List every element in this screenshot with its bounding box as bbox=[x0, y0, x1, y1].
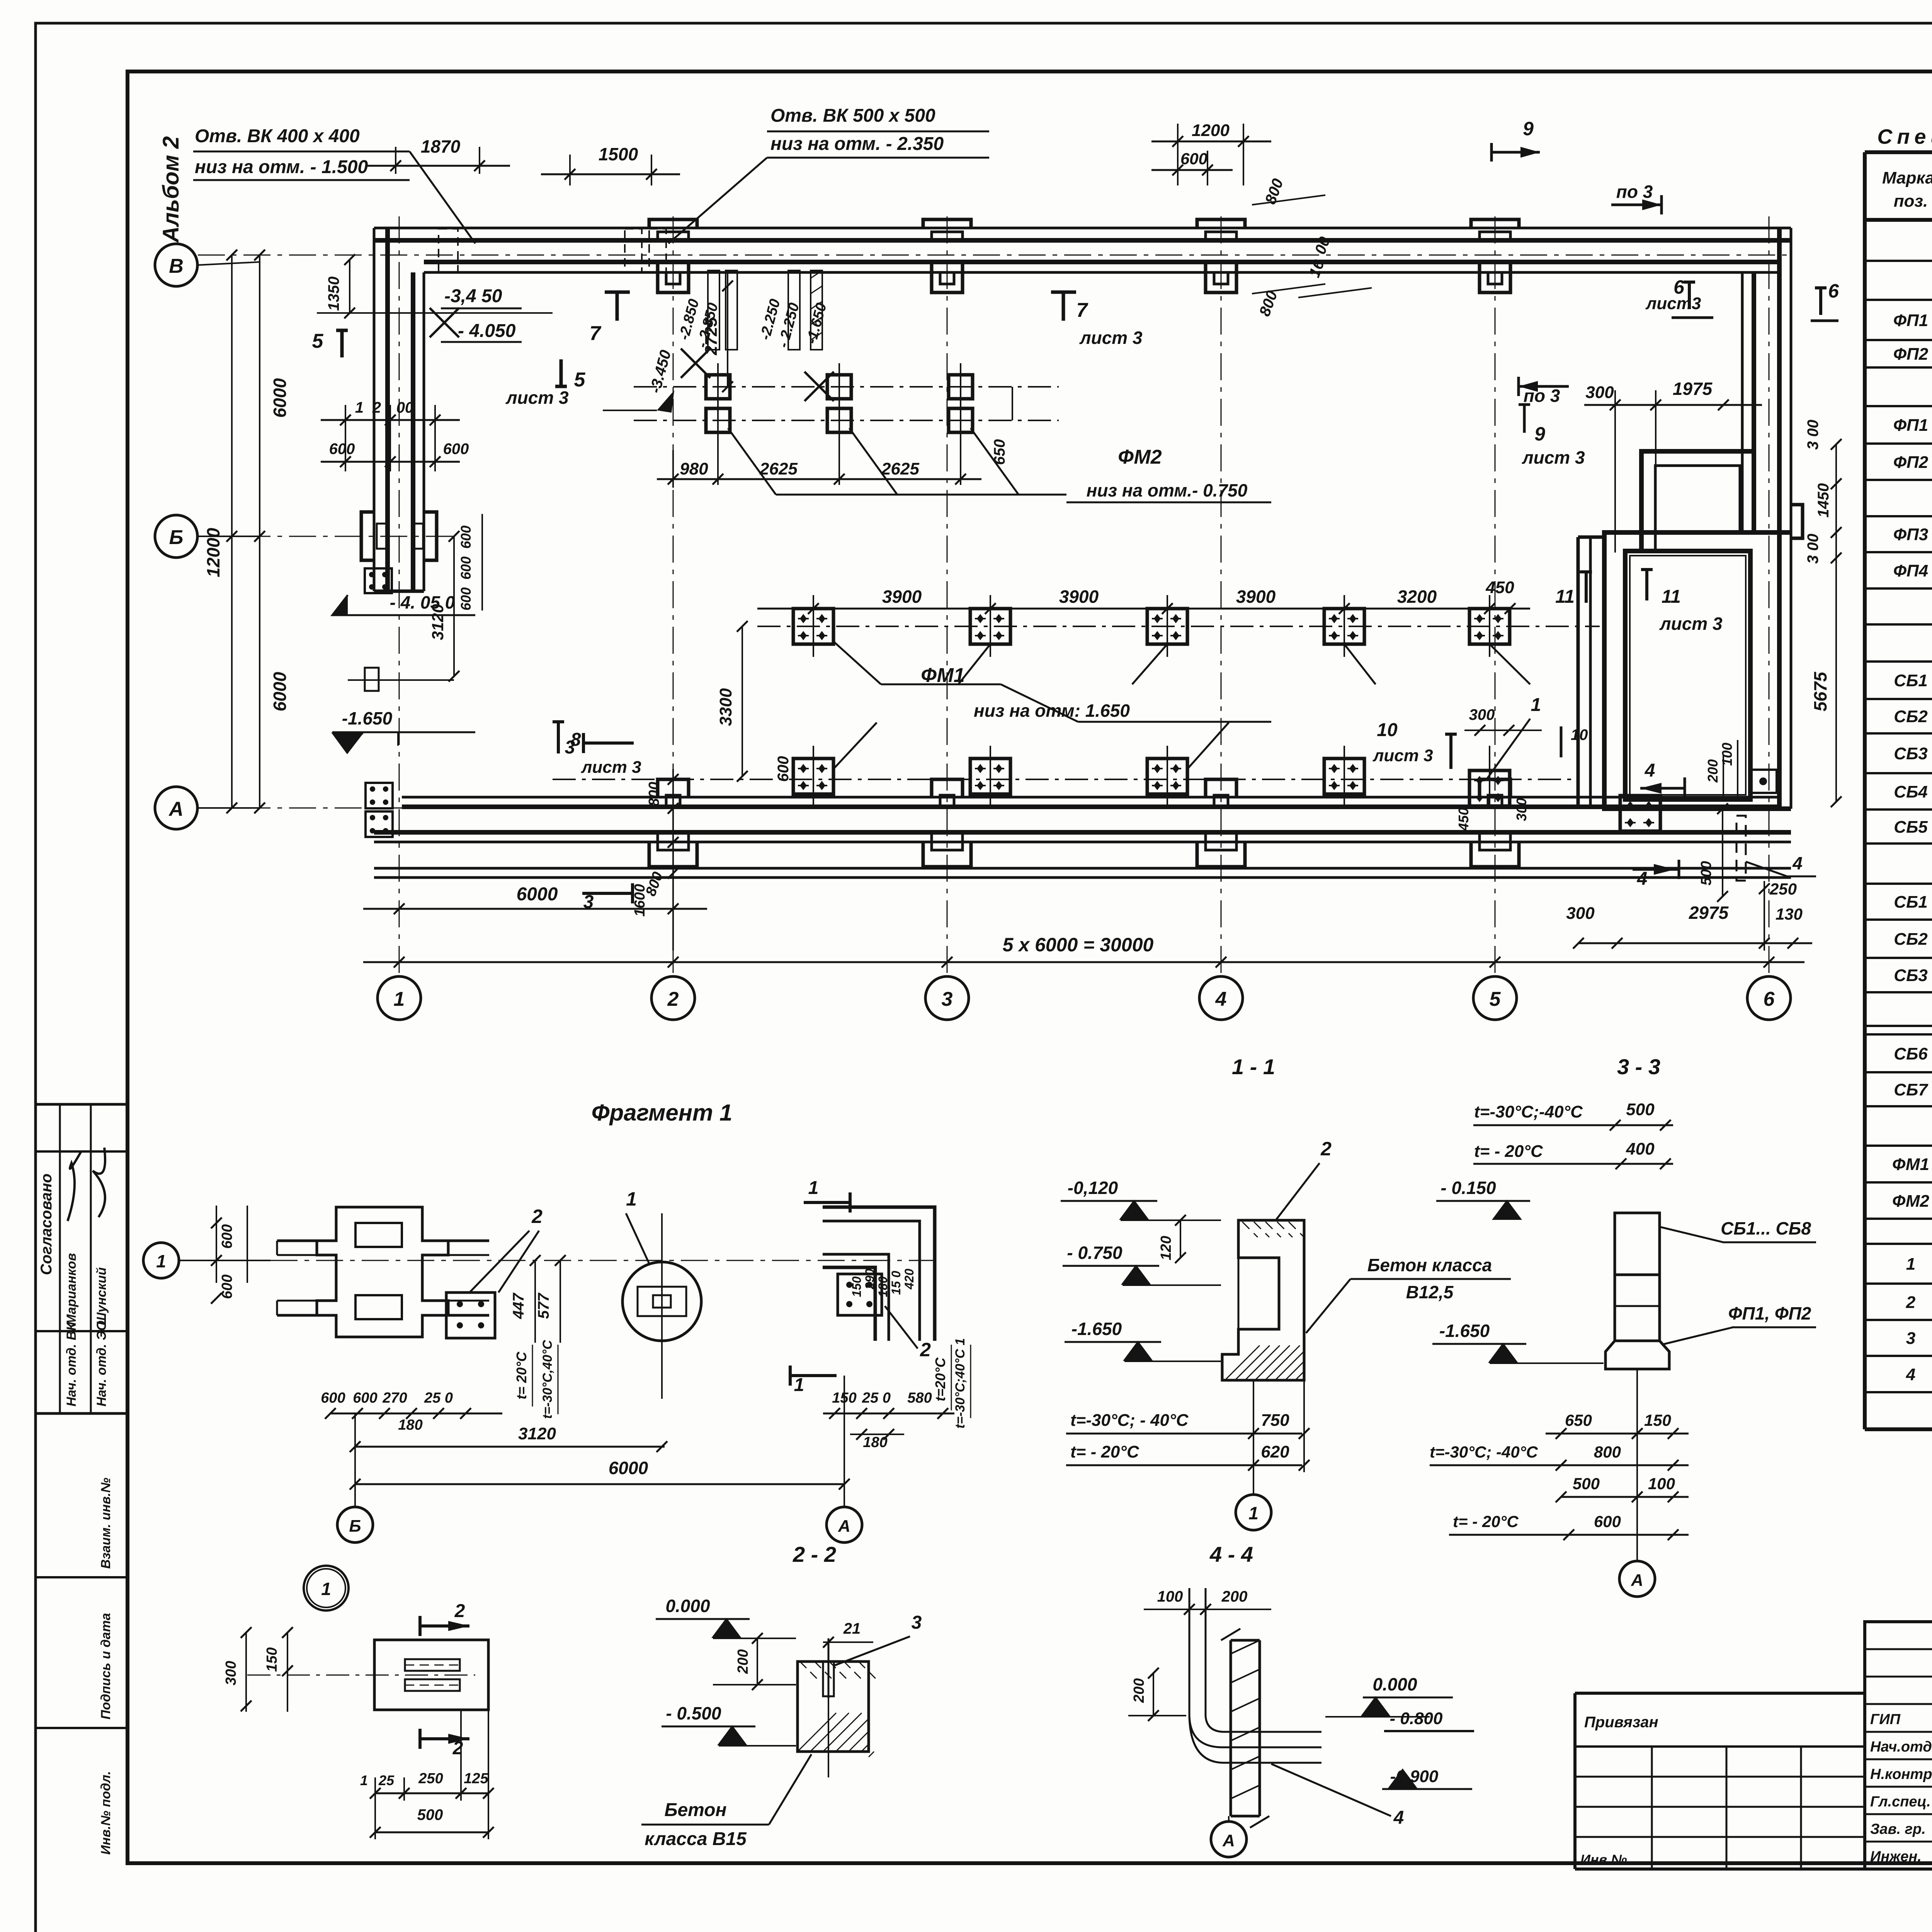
svg-text:ФП2: ФП2 bbox=[1893, 345, 1929, 364]
svg-text:лист 3: лист 3 bbox=[581, 758, 641, 777]
svg-text:2975: 2975 bbox=[1689, 903, 1729, 923]
svg-text:600: 600 bbox=[1594, 1512, 1621, 1531]
svg-text:4: 4 bbox=[1393, 1808, 1404, 1828]
axis row A centerline bbox=[198, 808, 1793, 809]
section mark 8 with list3 bbox=[553, 722, 564, 753]
svg-text:10: 10 bbox=[1377, 720, 1398, 740]
top dim 1870 bbox=[395, 147, 396, 174]
svg-text:3 - 3: 3 - 3 bbox=[1617, 1054, 1660, 1079]
svg-text:лист 3: лист 3 bbox=[1079, 328, 1143, 348]
svg-text:Б: Б bbox=[349, 1517, 361, 1536]
svg-text:1: 1 bbox=[1906, 1255, 1915, 1274]
svg-text:4 - 4: 4 - 4 bbox=[1209, 1542, 1253, 1566]
svg-text:290: 290 bbox=[863, 1269, 877, 1290]
svg-text:t=-30°C;40°C 1: t=-30°C;40°C 1 bbox=[953, 1338, 968, 1429]
left wall at axis 1 bbox=[373, 228, 376, 591]
svg-text:лист 3: лист 3 bbox=[1522, 447, 1585, 468]
svg-text:2: 2 bbox=[1906, 1293, 1916, 1312]
axis row V centerline bbox=[198, 255, 1793, 256]
fragment dims 600 600 left bbox=[216, 1206, 217, 1283]
tank left corridor wall bbox=[1577, 537, 1580, 809]
svg-text:1350: 1350 bbox=[325, 277, 342, 311]
svg-text:9: 9 bbox=[1534, 423, 1545, 445]
mini plan dims 300 150 left bbox=[245, 1633, 247, 1712]
svg-text:2: 2 bbox=[667, 988, 679, 1010]
svg-text:3900: 3900 bbox=[1059, 587, 1099, 607]
svg-text:t= 20°C: t= 20°C bbox=[514, 1351, 529, 1399]
section 1-1 axis circle 1 bbox=[1236, 1495, 1271, 1530]
svg-text:6000: 6000 bbox=[609, 1458, 648, 1478]
svg-text:2625: 2625 bbox=[759, 459, 798, 478]
top wall strip foundation bbox=[374, 227, 1791, 230]
left wall bottom end cap bbox=[374, 590, 424, 593]
svg-text:200: 200 bbox=[1221, 1588, 1248, 1605]
svg-text:1: 1 bbox=[355, 399, 364, 416]
svg-text:8: 8 bbox=[571, 730, 581, 750]
svg-text:лист 3: лист 3 bbox=[505, 388, 569, 408]
svg-text:СБ3: СБ3 bbox=[1894, 966, 1927, 985]
svg-text:- 0.500: - 0.500 bbox=[666, 1703, 721, 1723]
svg-text:3120: 3120 bbox=[518, 1424, 556, 1443]
section 4-4 pipe elbow bbox=[1189, 1716, 1321, 1747]
svg-text:ФП4: ФП4 bbox=[1893, 561, 1928, 580]
svg-text:А: А bbox=[838, 1517, 850, 1536]
svg-text:300: 300 bbox=[1514, 798, 1529, 821]
fragment corner bolt square bbox=[838, 1274, 882, 1315]
svg-text:150: 150 bbox=[850, 1276, 864, 1297]
svg-text:620: 620 bbox=[1261, 1442, 1289, 1461]
svg-text:СБ1: СБ1 bbox=[1894, 671, 1927, 690]
svg-text:Марианков: Марианков bbox=[64, 1253, 79, 1325]
svg-text:Нач. отд. ВК: Нач. отд. ВК bbox=[64, 1322, 79, 1406]
svg-text:t= - 20°C: t= - 20°C bbox=[1474, 1142, 1543, 1161]
svg-text:3900: 3900 bbox=[882, 587, 922, 607]
mini plan rectangle bbox=[374, 1640, 488, 1710]
svg-text:800: 800 bbox=[1594, 1443, 1621, 1461]
svg-text:лист 3: лист 3 bbox=[1372, 746, 1433, 765]
FM2 row centerlines bbox=[634, 386, 1059, 388]
dim 300 1975 above tank bbox=[1614, 390, 1616, 553]
right wall at axis 6 bbox=[1741, 272, 1744, 532]
svg-text:450: 450 bbox=[1456, 808, 1471, 831]
svg-text:2: 2 bbox=[920, 1339, 931, 1361]
svg-text:00: 00 bbox=[396, 399, 414, 416]
svg-text:4: 4 bbox=[1645, 760, 1655, 781]
svg-text:-0,120: -0,120 bbox=[1068, 1178, 1118, 1198]
svg-text:класса В15: класса В15 bbox=[645, 1829, 747, 1849]
left margin stamp table bbox=[36, 1103, 128, 1106]
svg-text:3: 3 bbox=[942, 988, 953, 1010]
svg-text:- 0.150: - 0.150 bbox=[1440, 1178, 1496, 1198]
FM1 leader network bbox=[833, 641, 881, 684]
svg-text:5: 5 bbox=[1490, 988, 1501, 1010]
svg-text:3: 3 bbox=[912, 1612, 922, 1633]
section 1-1 foundation profile hatched bbox=[1222, 1220, 1304, 1380]
section 4-4 pipe vertical bbox=[1189, 1588, 1190, 1716]
svg-text:Н.контр.: Н.контр. bbox=[1870, 1766, 1932, 1782]
svg-text:800: 800 bbox=[646, 782, 662, 806]
svg-text:250: 250 bbox=[1769, 880, 1797, 898]
svg-text:3120: 3120 bbox=[429, 604, 447, 640]
svg-text:600: 600 bbox=[321, 1390, 345, 1406]
svg-text:- 4.050: - 4.050 bbox=[458, 321, 516, 341]
mini plan centerline bbox=[247, 1675, 475, 1676]
svg-text:СБ2: СБ2 bbox=[1894, 930, 1928, 949]
svg-text:4: 4 bbox=[1906, 1365, 1915, 1384]
section 3-3 block column bbox=[1615, 1213, 1660, 1275]
svg-text:3 00: 3 00 bbox=[1804, 420, 1821, 450]
svg-text:3: 3 bbox=[1906, 1329, 1915, 1348]
dim 1350 vertical bbox=[349, 260, 350, 313]
svg-text:Согласовано: Согласовано bbox=[38, 1173, 55, 1275]
svg-text:-1.650: -1.650 bbox=[1439, 1321, 1490, 1341]
FM1 dimension chain 3900x3 3200 450 bbox=[813, 595, 814, 609]
svg-text:200: 200 bbox=[1131, 1678, 1147, 1703]
svg-text:580: 580 bbox=[907, 1390, 932, 1406]
svg-text:ФМ1: ФМ1 bbox=[1892, 1155, 1929, 1174]
dim 3120 vertical bbox=[453, 536, 455, 676]
spec table grid bbox=[1865, 150, 1932, 154]
svg-text:В12,5: В12,5 bbox=[1406, 1282, 1454, 1302]
svg-text:-1.650: -1.650 bbox=[342, 708, 393, 728]
svg-text:11: 11 bbox=[1662, 587, 1681, 607]
svg-text:Бетон класса: Бетон класса bbox=[1367, 1255, 1492, 1275]
fragment corner detail top-right bbox=[823, 1207, 935, 1341]
svg-text:низ на отм: 1.650: низ на отм: 1.650 bbox=[974, 701, 1130, 721]
svg-text:650: 650 bbox=[991, 439, 1008, 465]
svg-text:Инжен.: Инжен. bbox=[1870, 1849, 1922, 1865]
svg-text:250: 250 bbox=[418, 1770, 443, 1787]
section 3-3 flared base bbox=[1605, 1341, 1669, 1369]
left wall B-axis cross pilaster bbox=[361, 512, 374, 560]
svg-text:6: 6 bbox=[1764, 988, 1775, 1010]
svg-text:600: 600 bbox=[458, 556, 474, 580]
top wall pilasters bbox=[649, 219, 697, 228]
axis row circles V B A bbox=[155, 244, 197, 286]
svg-text:t=-30°C; -40°C: t=-30°C; -40°C bbox=[1430, 1443, 1538, 1461]
svg-text:Инв.№: Инв.№ bbox=[1580, 1852, 1627, 1867]
svg-text:0.000: 0.000 bbox=[1372, 1674, 1417, 1694]
FM2 leader diagonals bbox=[728, 428, 776, 495]
svg-text:лист 3: лист 3 bbox=[1659, 614, 1723, 634]
svg-text:300: 300 bbox=[1469, 706, 1495, 723]
svg-text:- 0.800: - 0.800 bbox=[1390, 1709, 1443, 1728]
section mark 9 lower with list 3 bbox=[1519, 405, 1530, 433]
svg-text:600: 600 bbox=[458, 526, 474, 549]
svg-text:400: 400 bbox=[1626, 1139, 1655, 1158]
bottom wall lower foundation edge lines bbox=[374, 867, 1791, 870]
svg-text:СБ3: СБ3 bbox=[1894, 744, 1927, 763]
svg-text:100: 100 bbox=[1719, 743, 1735, 766]
svg-text:9: 9 bbox=[1523, 118, 1534, 139]
svg-text:1: 1 bbox=[394, 988, 405, 1010]
bottom dim 6000 axis1-2 bbox=[399, 889, 400, 939]
svg-text:5 х 6000 = 30000: 5 х 6000 = 30000 bbox=[1003, 934, 1154, 956]
svg-text:Зав. гр.: Зав. гр. bbox=[1870, 1821, 1926, 1837]
svg-text:4: 4 bbox=[1637, 869, 1648, 889]
FM1 pad at tank wall bbox=[1620, 796, 1660, 831]
svg-text:100: 100 bbox=[1648, 1475, 1675, 1493]
svg-text:по 3: по 3 bbox=[1616, 182, 1653, 202]
svg-text:2: 2 bbox=[1320, 1138, 1332, 1160]
svg-text:2: 2 bbox=[531, 1206, 543, 1227]
svg-text:1: 1 bbox=[321, 1579, 331, 1599]
bottom-left corner bolt squares bbox=[366, 783, 393, 808]
svg-text:180: 180 bbox=[863, 1434, 887, 1451]
svg-text:21: 21 bbox=[843, 1620, 861, 1637]
svg-text:t=-30°C;-40°C: t=-30°C;-40°C bbox=[1474, 1102, 1583, 1121]
svg-text:3 00: 3 00 bbox=[1804, 534, 1821, 564]
svg-text:300: 300 bbox=[1566, 904, 1595, 923]
svg-text:500: 500 bbox=[417, 1806, 443, 1823]
svg-text:Спецификация к схеме расположе: Спецификация к схеме расположения фундам… bbox=[1877, 125, 1932, 148]
svg-text:6000: 6000 bbox=[517, 884, 558, 905]
fragment dim 3120 bbox=[355, 1446, 665, 1448]
svg-text:25: 25 bbox=[378, 1772, 395, 1788]
svg-text:25 0: 25 0 bbox=[862, 1390, 891, 1406]
mini plan dims 125 250 125 500 bbox=[375, 1793, 488, 1794]
bottom overall dim 5x6000 bbox=[363, 961, 1804, 963]
section 3-3 axis circle A bbox=[1619, 1561, 1655, 1597]
svg-text:150: 150 bbox=[264, 1647, 280, 1672]
svg-text:А: А bbox=[168, 798, 184, 820]
svg-text:420: 420 bbox=[902, 1269, 916, 1290]
svg-text:ФМ2: ФМ2 bbox=[1118, 446, 1162, 468]
svg-text:600: 600 bbox=[775, 756, 792, 782]
svg-text:125: 125 bbox=[464, 1770, 488, 1787]
section 4-4 wall hatched bbox=[1217, 1640, 1260, 1816]
svg-text:447: 447 bbox=[510, 1293, 527, 1319]
FM2 foundation bolt squares row 1 bbox=[706, 375, 730, 399]
svg-text:ФП1: ФП1 bbox=[1893, 416, 1928, 435]
section mark 7 right with list 3 bbox=[1051, 292, 1076, 321]
svg-text:СБ5: СБ5 bbox=[1894, 818, 1928, 837]
svg-text:6000: 6000 bbox=[270, 378, 290, 418]
FM2 dimension chain 980 2625 2625 bbox=[672, 450, 674, 488]
dim 3300 vertical bbox=[742, 626, 743, 776]
svg-text:- 0.750: - 0.750 bbox=[1067, 1243, 1122, 1263]
svg-text:270: 270 bbox=[382, 1390, 407, 1406]
right dim chain 300 1450 300 5675 bbox=[1835, 444, 1837, 802]
svg-text:500: 500 bbox=[1573, 1475, 1600, 1493]
svg-text:1500: 1500 bbox=[599, 144, 638, 164]
FM2 foundation bolt squares row 2 bbox=[706, 408, 730, 432]
svg-text:1450: 1450 bbox=[1815, 483, 1832, 518]
svg-text:Взаим. инв.№: Взаим. инв.№ bbox=[99, 1478, 113, 1569]
svg-text:1: 1 bbox=[360, 1772, 368, 1788]
svg-text:t= - 20°C: t= - 20°C bbox=[1070, 1442, 1139, 1461]
svg-text:10: 10 bbox=[1571, 726, 1588, 743]
mini plan embedded bars bbox=[405, 1659, 460, 1671]
svg-text:300: 300 bbox=[223, 1661, 239, 1685]
stamp signatures squiggles bbox=[68, 1151, 81, 1221]
svg-text:650: 650 bbox=[1565, 1411, 1592, 1429]
fragment axis circle A bbox=[827, 1507, 862, 1543]
section mark 5 right with list 3 bbox=[555, 359, 567, 386]
svg-text:100: 100 bbox=[1157, 1588, 1183, 1605]
svg-text:0.000: 0.000 bbox=[665, 1596, 710, 1616]
svg-text:t= - 20°C: t= - 20°C bbox=[1453, 1512, 1519, 1531]
svg-text:600: 600 bbox=[458, 587, 474, 611]
svg-text:2: 2 bbox=[372, 399, 381, 416]
tank upper chamber outer wall bbox=[1641, 451, 1754, 551]
svg-text:1: 1 bbox=[1531, 695, 1541, 715]
fragment axis circle 1 bbox=[143, 1243, 179, 1278]
tank main basin inner wall bbox=[1625, 551, 1750, 799]
svg-text:600: 600 bbox=[353, 1390, 377, 1406]
dim 600 600 1200 fragment wall bbox=[345, 405, 346, 471]
svg-text:СБ6: СБ6 bbox=[1894, 1044, 1928, 1063]
svg-text:600: 600 bbox=[1180, 150, 1207, 168]
tank main basin outer wall bbox=[1604, 532, 1791, 809]
section 2-2 concrete block hatched bbox=[798, 1662, 869, 1752]
svg-text:СБ1... СБ8: СБ1... СБ8 bbox=[1721, 1218, 1811, 1238]
svg-text:поз.: поз. bbox=[1894, 192, 1928, 211]
fragment cross wall outline bbox=[277, 1240, 336, 1242]
right wall pilaster at tank bbox=[1791, 505, 1803, 538]
section 4-4 axis circle A bbox=[1211, 1821, 1247, 1857]
svg-text:120: 120 bbox=[1158, 1236, 1174, 1260]
svg-text:3200: 3200 bbox=[1397, 587, 1437, 607]
svg-text:ФМ1: ФМ1 bbox=[921, 664, 964, 687]
svg-text:1: 1 bbox=[1248, 1503, 1259, 1523]
svg-text:2: 2 bbox=[454, 1601, 465, 1621]
fragment right arm bars bbox=[448, 1240, 489, 1242]
svg-text:2 - 2: 2 - 2 bbox=[793, 1542, 836, 1566]
svg-text:Привязан: Привязан bbox=[1584, 1714, 1658, 1731]
svg-text:СБ2: СБ2 bbox=[1894, 707, 1928, 726]
svg-text:5: 5 bbox=[574, 369, 586, 391]
fragment bolt square bbox=[446, 1293, 495, 1338]
svg-text:-3,4 50: -3,4 50 bbox=[444, 286, 502, 306]
hole bars with levels -2.850 -2.250 -1.650 bbox=[708, 270, 719, 350]
svg-text:Подпись и дата: Подпись и дата bbox=[99, 1613, 113, 1719]
svg-text:450: 450 bbox=[1485, 578, 1514, 597]
bottom wall strip foundation bbox=[402, 796, 1779, 799]
svg-text:Шунский: Шунский bbox=[94, 1267, 109, 1325]
axis row B centerline bbox=[198, 536, 456, 537]
svg-text:В: В bbox=[169, 255, 184, 277]
tank basin lining bbox=[1630, 556, 1746, 795]
svg-text:1200: 1200 bbox=[1192, 121, 1230, 140]
svg-text:Нач. отд. ЭО: Нач. отд. ЭО bbox=[94, 1321, 109, 1406]
svg-text:Нач.отд.: Нач.отд. bbox=[1870, 1739, 1932, 1755]
axis grid vertical centerlines bbox=[399, 216, 400, 976]
svg-text:200: 200 bbox=[735, 1649, 751, 1674]
svg-text:4: 4 bbox=[1215, 988, 1227, 1010]
svg-text:6: 6 bbox=[1828, 280, 1839, 302]
dim 2725 vertical bbox=[727, 272, 728, 387]
svg-text:6000: 6000 bbox=[270, 672, 290, 711]
FM1 pad on bottom wall near axis5 bbox=[1469, 770, 1510, 806]
svg-text:t=20°C: t=20°C bbox=[932, 1357, 948, 1401]
svg-text:5675: 5675 bbox=[1810, 671, 1830, 711]
svg-text:600: 600 bbox=[329, 440, 355, 457]
fragment bottom dims row bbox=[330, 1413, 502, 1415]
axis circles 1-6 bbox=[378, 976, 421, 1020]
svg-text:t=-30°C; - 40°C: t=-30°C; - 40°C bbox=[1070, 1411, 1189, 1430]
svg-text:25 0: 25 0 bbox=[424, 1390, 453, 1406]
svg-text:500: 500 bbox=[1698, 861, 1714, 885]
svg-text:Отв. ВК 500 х 500: Отв. ВК 500 х 500 bbox=[770, 105, 935, 126]
svg-text:500: 500 bbox=[1626, 1100, 1655, 1119]
fragment double circle 1 below bbox=[304, 1566, 349, 1611]
section 11 marks list3 bbox=[1580, 572, 1592, 603]
svg-text:1 - 1: 1 - 1 bbox=[1232, 1054, 1275, 1079]
svg-text:3300: 3300 bbox=[716, 688, 735, 726]
fragment anchor detail circle bbox=[622, 1262, 701, 1341]
svg-text:600: 600 bbox=[219, 1224, 235, 1248]
svg-text:СБ1: СБ1 bbox=[1894, 893, 1927, 912]
svg-text:980: 980 bbox=[680, 459, 708, 478]
svg-text:низ на отм.- 0.750: низ на отм.- 0.750 bbox=[1087, 480, 1248, 500]
svg-text:180: 180 bbox=[398, 1417, 422, 1433]
svg-text:ФП3: ФП3 bbox=[1893, 525, 1928, 544]
small hatched rect fragment marker bbox=[365, 668, 379, 691]
svg-text:ФП2: ФП2 bbox=[1893, 453, 1929, 472]
svg-text:ФМ2: ФМ2 bbox=[1892, 1192, 1930, 1211]
svg-text:1: 1 bbox=[156, 1251, 166, 1271]
svg-text:150: 150 bbox=[1644, 1411, 1671, 1429]
bottom wall pilasters bbox=[658, 779, 689, 797]
section mark 10 small right bbox=[1560, 726, 1563, 757]
svg-text:А: А bbox=[1222, 1831, 1235, 1850]
anchor bolt square at left wall end bbox=[365, 568, 392, 593]
svg-text:300: 300 bbox=[1585, 383, 1614, 402]
svg-text:А: А bbox=[1631, 1571, 1643, 1590]
svg-text:Бетон: Бетон bbox=[664, 1800, 726, 1820]
svg-text:600: 600 bbox=[443, 440, 469, 457]
svg-text:Марка,: Марка, bbox=[1882, 168, 1932, 187]
svg-text:ФП1: ФП1 bbox=[1893, 311, 1928, 330]
svg-text:1: 1 bbox=[794, 1375, 804, 1395]
svg-text:ФП1, ФП2: ФП1, ФП2 bbox=[1728, 1303, 1811, 1323]
svg-text:2625: 2625 bbox=[881, 459, 919, 478]
svg-text:577: 577 bbox=[535, 1293, 552, 1319]
hole in top wall dashed bbox=[439, 229, 458, 272]
svg-text:низ на отм. - 1.500: низ на отм. - 1.500 bbox=[195, 157, 368, 177]
svg-text:4: 4 bbox=[1792, 853, 1803, 873]
svg-text:750: 750 bbox=[1261, 1411, 1289, 1430]
svg-text:низ на отм. - 2.350: низ на отм. - 2.350 bbox=[770, 134, 944, 154]
FM1 column stems bbox=[813, 595, 814, 657]
svg-text:Б: Б bbox=[169, 526, 184, 549]
svg-text:Отв. ВК 400 х 400: Отв. ВК 400 х 400 bbox=[195, 126, 360, 146]
fragment dim 6000 with axis circles B A bbox=[355, 1483, 844, 1485]
holes in top wall at axis2 dashed bbox=[625, 229, 642, 272]
svg-text:1: 1 bbox=[626, 1188, 637, 1210]
svg-text:1870: 1870 bbox=[421, 136, 461, 156]
svg-text:12000: 12000 bbox=[203, 528, 223, 577]
svg-text:7: 7 bbox=[1077, 299, 1088, 321]
pipe sleeve below tank bbox=[1736, 816, 1746, 881]
fragment corner bottom dims 150 250 580 bbox=[823, 1413, 954, 1415]
signature table bbox=[1865, 1622, 1932, 1869]
svg-text:Фрагмент 1: Фрагмент 1 bbox=[592, 1100, 733, 1126]
privyazan table bbox=[1575, 1692, 1865, 1695]
FM2 column stems bbox=[717, 363, 719, 485]
FM1 row centerlines bbox=[757, 626, 1600, 627]
svg-text:Гл.спец.: Гл.спец. bbox=[1870, 1794, 1931, 1810]
svg-text:3900: 3900 bbox=[1236, 587, 1276, 607]
svg-text:130: 130 bbox=[1776, 905, 1803, 923]
svg-text:15 0: 15 0 bbox=[889, 1271, 903, 1295]
top dim 1500 bbox=[569, 155, 571, 185]
svg-text:200: 200 bbox=[1705, 759, 1721, 783]
svg-text:180: 180 bbox=[876, 1276, 890, 1297]
svg-text:7: 7 bbox=[590, 322, 602, 345]
FM1 foundation pads top row bbox=[793, 609, 833, 644]
